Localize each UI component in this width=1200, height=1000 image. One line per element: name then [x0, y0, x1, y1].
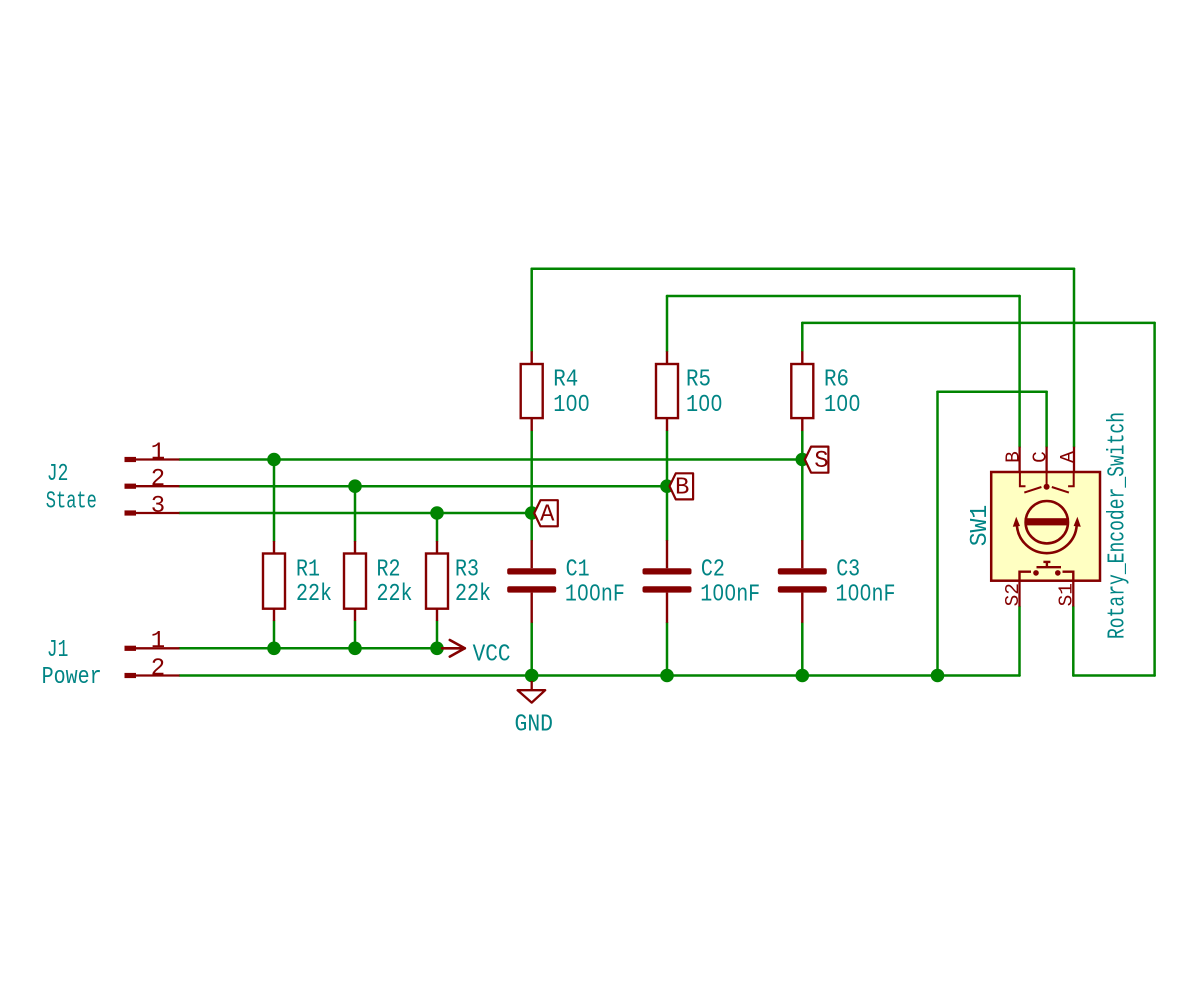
svg-text:GND: GND: [515, 711, 554, 738]
svg-text:1: 1: [151, 439, 165, 466]
svg-text:C: C: [1029, 451, 1051, 463]
svg-text:C1: C1: [566, 557, 590, 584]
svg-text:Power: Power: [42, 664, 102, 691]
svg-text:A: A: [540, 502, 555, 529]
svg-text:R2: R2: [377, 557, 401, 584]
svg-text:R1: R1: [296, 557, 320, 584]
svg-text:R4: R4: [553, 367, 578, 394]
svg-text:State: State: [46, 488, 97, 515]
svg-text:SW1: SW1: [967, 505, 994, 547]
svg-text:2: 2: [151, 466, 165, 493]
svg-text:VCC: VCC: [473, 641, 511, 668]
svg-text:C3: C3: [836, 557, 860, 584]
svg-text:C2: C2: [701, 557, 725, 584]
svg-text:22k: 22k: [455, 581, 491, 608]
svg-text:S2: S2: [1002, 583, 1024, 606]
svg-text:J1: J1: [47, 637, 69, 664]
svg-text:2: 2: [151, 655, 165, 682]
svg-text:R3: R3: [455, 557, 479, 584]
svg-text:J2: J2: [47, 461, 69, 488]
svg-text:R6: R6: [824, 367, 849, 394]
svg-text:3: 3: [151, 493, 165, 520]
svg-text:B: B: [1002, 451, 1024, 463]
svg-text:R5: R5: [686, 367, 711, 394]
svg-text:A: A: [1057, 451, 1079, 463]
svg-text:Rotary_Encoder_Switch: Rotary_Encoder_Switch: [1105, 412, 1132, 639]
svg-text:B: B: [675, 475, 689, 502]
svg-text:22k: 22k: [296, 581, 332, 608]
svg-text:S1: S1: [1056, 583, 1078, 606]
svg-text:S: S: [814, 448, 828, 475]
svg-text:22k: 22k: [377, 581, 413, 608]
svg-text:1: 1: [151, 628, 165, 655]
